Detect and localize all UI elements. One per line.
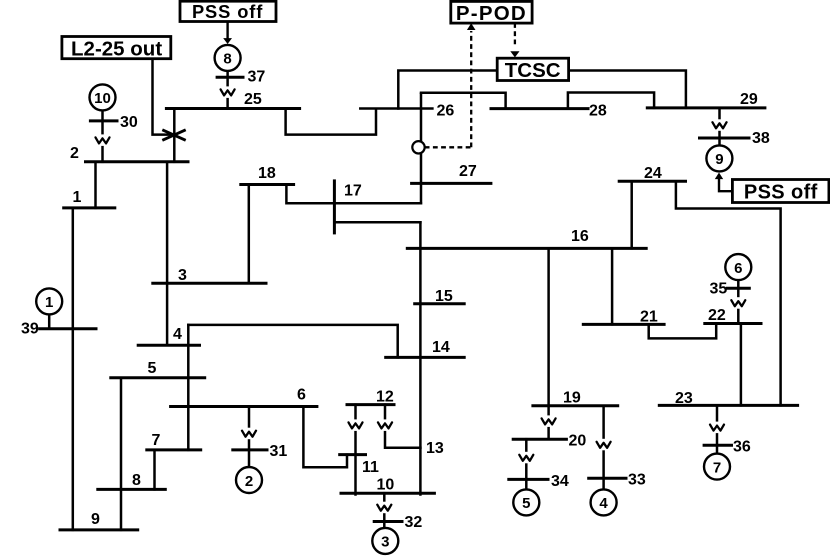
svg-text:36: 36 (733, 439, 751, 456)
svg-text:29: 29 (740, 91, 758, 108)
bus 24 (619, 180, 685, 183)
dashed control line P-POD to TCSC (514, 23, 516, 47)
bus 15 (415, 302, 465, 305)
svg-text:15: 15 (435, 288, 453, 305)
wire line 17-16 (334, 221, 420, 224)
PSS off box (right, for gen 9) (732, 180, 829, 203)
bus 27 (412, 182, 491, 185)
wire line 6-11 (303, 407, 347, 468)
wire transformer 12-13 (385, 405, 420, 448)
bus 19 (533, 404, 618, 407)
svg-text:6: 6 (734, 260, 742, 277)
generator G9 circle (706, 145, 732, 171)
bus 23 (659, 404, 797, 407)
P-POD box (451, 1, 532, 23)
bus 1 (64, 206, 115, 209)
svg-text:5: 5 (522, 495, 530, 512)
wire line 18-17 and 17-27 (286, 185, 421, 204)
generator bus 31 crossbar (233, 448, 267, 451)
wire line 22-23 (740, 324, 743, 406)
svg-text:2: 2 (70, 145, 79, 162)
generator G1 circle (36, 288, 62, 314)
svg-text:11: 11 (362, 459, 379, 476)
transformer winding symbol on 23-36 (709, 422, 725, 434)
generator bus 35 crossbar (728, 287, 750, 290)
wire transformer branch 20-34 (gen 5) (525, 439, 528, 489)
generator bus 36 crossbar (704, 444, 731, 447)
bus 3 (153, 282, 266, 285)
generator G4 circle (591, 489, 617, 515)
svg-text:20: 20 (569, 433, 587, 450)
bus 8 (98, 488, 166, 491)
svg-text:16: 16 (571, 228, 589, 245)
svg-text:9: 9 (715, 151, 723, 168)
wire transformer branch 23-36 (gen 7) (716, 405, 719, 454)
wire line 4-5, 5-6, 6-7 vertical (187, 325, 190, 450)
transformer winding symbol on 19-33 (596, 439, 612, 451)
bus 16 (407, 247, 646, 250)
bus 9 (60, 528, 138, 531)
wire transformer branch 6-31 (gen 2) (248, 407, 251, 468)
generator G2 circle (236, 467, 262, 493)
wire line 1-2 (94, 162, 97, 208)
wire generator 1 stub to bus 39 (48, 315, 51, 329)
svg-text:31: 31 (270, 443, 288, 460)
wire line 3-18 (248, 185, 251, 284)
PSS off box (top, for gen 8) (180, 1, 276, 21)
transformer winding symbol on 20-34 (518, 452, 534, 464)
svg-text:L2-25 out: L2-25 out (71, 37, 162, 60)
transformer winding symbol on 12-11 (348, 419, 364, 431)
svg-text:17: 17 (344, 183, 362, 200)
svg-text:TCSC: TCSC (505, 59, 561, 82)
svg-text:10: 10 (94, 90, 111, 107)
transformer winding symbol on 29-38 (712, 119, 728, 131)
svg-text:22: 22 (708, 307, 726, 324)
bus 5 (111, 376, 205, 379)
wire line 21-22 (649, 324, 717, 339)
svg-text:1: 1 (45, 294, 53, 311)
svg-text:12: 12 (376, 389, 394, 406)
generator bus 33 crossbar (589, 477, 626, 480)
generator G6 circle (725, 254, 751, 280)
svg-text:P-POD: P-POD (456, 2, 527, 25)
svg-text:23: 23 (675, 390, 693, 407)
svg-text:30: 30 (120, 114, 138, 131)
bus 21 (583, 323, 664, 326)
bus 6 (171, 405, 317, 408)
wire line 2-25 (with outage X) (173, 109, 176, 162)
svg-text:PSS off: PSS off (192, 1, 263, 22)
svg-text:26: 26 (437, 103, 455, 120)
svg-text:6: 6 (297, 387, 306, 404)
svg-text:7: 7 (152, 432, 161, 449)
transformer winding symbol on 25-37 (220, 86, 236, 98)
wire transformer branch 25-37 (gen 8) (226, 71, 229, 109)
bus 7 (147, 448, 201, 451)
wire line 16-15, 15-14, 14-13, 13-10 vertical (419, 222, 422, 494)
bus 11 (340, 453, 366, 456)
bus 18 (241, 183, 294, 186)
wire line 26-29 through TCSC (398, 71, 686, 109)
bus 2 (86, 160, 189, 163)
svg-text:7: 7 (713, 459, 721, 476)
wire line 7-8 (153, 450, 156, 490)
generator G5 circle (513, 489, 539, 515)
svg-text:27: 27 (459, 163, 477, 180)
wire line 25-26 with dip (286, 109, 433, 135)
generator G8 circle (215, 45, 241, 71)
bus 17 (vertical bar) (333, 181, 336, 233)
generator G3 circle (372, 528, 398, 554)
transformer winding symbol on 6-31 (241, 428, 257, 440)
bus 29 (647, 106, 765, 109)
generator bus 30 crossbar (90, 119, 117, 122)
svg-text:9: 9 (91, 511, 100, 528)
svg-text:39: 39 (21, 321, 39, 338)
svg-text:21: 21 (640, 309, 658, 326)
bus 4 (138, 344, 199, 347)
svg-text:38: 38 (752, 130, 770, 147)
wire line 16-24 (630, 181, 633, 248)
svg-text:18: 18 (258, 165, 276, 182)
generator bus 34 crossbar (509, 478, 548, 481)
bus 10 (341, 492, 434, 495)
svg-text:35: 35 (710, 281, 728, 298)
svg-text:10: 10 (377, 477, 395, 494)
svg-text:14: 14 (432, 339, 450, 356)
svg-text:4: 4 (173, 326, 182, 343)
wire line 5-8 and 8-9 (120, 378, 123, 530)
bus 28 (491, 107, 588, 110)
svg-text:32: 32 (405, 514, 423, 531)
wire line 28-29 jog (568, 93, 654, 109)
bus 12 (347, 403, 394, 406)
bus 25 (166, 107, 299, 110)
wire line 1-39 and 39-9 (72, 208, 75, 530)
svg-text:28: 28 (589, 103, 607, 120)
transformer winding symbol on 2-30 (95, 134, 111, 146)
wire line 16-21 (611, 248, 614, 324)
transformer winding symbol on 12-13 (377, 419, 393, 431)
wire line 16-19 (547, 248, 550, 405)
transformer winding symbol on 10-32 (376, 502, 392, 514)
dashed feedback line from measurement point to P-POD (425, 31, 472, 147)
wire L2-25 out pointer (153, 59, 173, 135)
svg-text:24: 24 (644, 165, 662, 182)
generator bus 37 crossbar (217, 76, 243, 79)
wire bus 26 vertical and line 26-27, 27 down to 17 tie (420, 94, 423, 203)
wire line 2-3 and 3-4 (166, 162, 169, 345)
wire line 24-23 (676, 181, 781, 405)
svg-text:25: 25 (244, 91, 262, 108)
wire transformer 12-11 and line 11-10 (354, 405, 357, 495)
wire transformer branch 22-35 (gen 6) (737, 280, 740, 323)
svg-text:3: 3 (178, 267, 187, 284)
svg-text:5: 5 (148, 360, 157, 377)
svg-text:2: 2 (245, 473, 253, 490)
svg-text:19: 19 (563, 390, 581, 407)
wire transformer branch 29-38 (gen 9) (718, 108, 721, 145)
bus 20 (513, 438, 566, 441)
measurement point circle on line 26-27 (412, 141, 424, 153)
svg-text:PSS off: PSS off (744, 181, 818, 203)
svg-text:33: 33 (628, 472, 646, 489)
bus 22 (705, 322, 761, 325)
L2-25 out box (62, 37, 171, 59)
svg-text:4: 4 (599, 495, 608, 512)
svg-text:8: 8 (223, 51, 231, 68)
svg-text:1: 1 (73, 189, 82, 206)
transformer winding symbol on 19-20 (541, 415, 557, 427)
generator G7 circle (704, 454, 730, 480)
wire line 26-28 jog (421, 93, 506, 109)
arrow PSS off to gen 9 (719, 179, 732, 191)
outage X symbol on line 2-25 (162, 130, 185, 141)
svg-text:34: 34 (551, 473, 569, 490)
svg-text:8: 8 (132, 472, 141, 489)
generator bus 38 crossbar (700, 137, 750, 140)
svg-text:13: 13 (426, 440, 444, 457)
wire transformer branch 19-33 (gen 4) (602, 406, 605, 490)
wire transformer branch 2-30 (gen 10) (101, 111, 104, 162)
generator bus 32 crossbar (374, 520, 402, 523)
wire transformer 19-20 (547, 406, 550, 439)
transformer winding symbol on 22-35 (730, 297, 746, 309)
wire line 4-14 (188, 325, 397, 358)
TCSC box (497, 58, 568, 80)
bus 39 (40, 327, 96, 330)
generator G10 circle (90, 84, 116, 110)
svg-text:3: 3 (381, 534, 389, 551)
arrow PSS off to gen 8 (226, 22, 228, 39)
svg-text:37: 37 (248, 69, 266, 86)
bus 14 (386, 356, 465, 359)
wire transformer branch 10-32 (gen 3) (383, 493, 386, 528)
